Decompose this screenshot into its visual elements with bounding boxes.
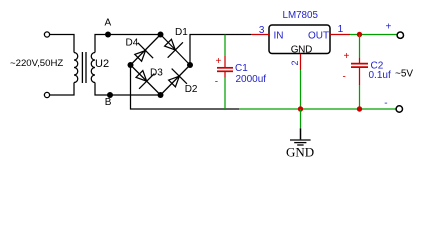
transformer U2 core xyxy=(82,52,86,83)
svg-text:0.1uf: 0.1uf xyxy=(369,70,391,81)
svg-text:-: - xyxy=(343,72,346,83)
svg-text:D2: D2 xyxy=(185,84,198,95)
wire: pin 2 down to ground rail xyxy=(300,70,302,109)
svg-text:1: 1 xyxy=(338,24,344,35)
wire: top terminal to primary top xyxy=(50,35,74,53)
pin 1 stub (OUT) xyxy=(330,34,350,36)
diode D4 xyxy=(131,43,154,66)
capacitor C2 xyxy=(351,58,368,85)
svg-text:A: A xyxy=(105,18,112,29)
wire: bottom terminal to primary bottom xyxy=(50,83,74,96)
bridge right node junction dot xyxy=(187,62,193,68)
svg-text:~5V: ~5V xyxy=(395,68,413,79)
AC input terminal top-left xyxy=(44,32,49,37)
wire: ground rail (green net) xyxy=(239,108,396,110)
pin 3 stub (IN) xyxy=(251,34,269,36)
wire: bridge edge top-right (D1 branch) xyxy=(161,35,191,66)
svg-text:-: - xyxy=(384,98,387,109)
regulator U1 LM7805 body xyxy=(269,25,330,54)
wire: C2 upper lead to output rail xyxy=(359,35,361,59)
transformer U2 primary winding xyxy=(74,53,78,83)
svg-text:GND: GND xyxy=(286,145,314,160)
bridge left node junction dot xyxy=(128,62,134,68)
capacitor C1 xyxy=(217,56,233,78)
svg-text:GND: GND xyxy=(291,45,312,56)
svg-text:D3: D3 xyxy=(150,67,163,78)
wire: C1 lower lead to ground rail xyxy=(224,78,226,110)
svg-text:2000uf: 2000uf xyxy=(236,74,267,85)
svg-text:+: + xyxy=(216,56,222,67)
diode D1 xyxy=(160,35,183,58)
output terminal - xyxy=(396,106,402,112)
svg-text:IN: IN xyxy=(274,30,284,41)
node A junction dot xyxy=(105,32,111,38)
svg-text:~220V,50HZ: ~220V,50HZ xyxy=(10,58,63,69)
pin 2 stub (GND) xyxy=(300,54,302,71)
svg-text:B: B xyxy=(105,97,112,108)
output terminal + xyxy=(397,32,403,38)
junction dot: ground rail / pin 2 xyxy=(298,106,303,111)
svg-text:+: + xyxy=(386,22,392,33)
wire: secondary bottom to bridge bottom node xyxy=(95,83,161,96)
svg-text:2: 2 xyxy=(290,60,300,65)
AC input terminal bottom-left xyxy=(44,92,49,97)
junction dot: ground rail / C2 xyxy=(357,106,362,111)
svg-text:LM7805: LM7805 xyxy=(283,10,319,21)
svg-text:3: 3 xyxy=(259,25,265,36)
junction dot: output rail / C2 xyxy=(357,32,362,37)
wire: C2 lower lead to ground rail xyxy=(359,85,361,109)
ground xyxy=(290,128,311,145)
wire: bridge right node to regulator input xyxy=(190,35,251,66)
svg-text:OUT: OUT xyxy=(308,30,329,41)
node B junction dot xyxy=(107,92,113,98)
diode D2 xyxy=(164,69,187,92)
wire: ground rail down to earth symbol xyxy=(300,109,302,128)
wire: +5V output rail xyxy=(350,34,397,36)
svg-text:-: - xyxy=(215,76,218,87)
svg-text:+: + xyxy=(344,51,350,62)
wire: bridge edge bottom-right (D2 branch) xyxy=(161,65,191,95)
wire: bridge edge left-bottom (D3 branch) xyxy=(131,65,161,95)
transformer U2 secondary winding xyxy=(91,53,95,83)
wire: bridge edge left-top (D4 branch) xyxy=(131,35,161,66)
diode D3 xyxy=(132,66,155,89)
wire: secondary top to bridge top node xyxy=(95,35,161,53)
svg-text:C1: C1 xyxy=(235,63,248,74)
svg-text:D4: D4 xyxy=(126,37,139,48)
bridge bottom node junction dot xyxy=(158,92,164,98)
bridge top node junction dot xyxy=(158,32,164,38)
svg-text:D1: D1 xyxy=(175,27,188,38)
wire: bridge left node down to ground rail xyxy=(131,65,240,109)
wire: C1 upper lead to input rail xyxy=(224,35,226,57)
svg-text:U2: U2 xyxy=(95,58,109,70)
